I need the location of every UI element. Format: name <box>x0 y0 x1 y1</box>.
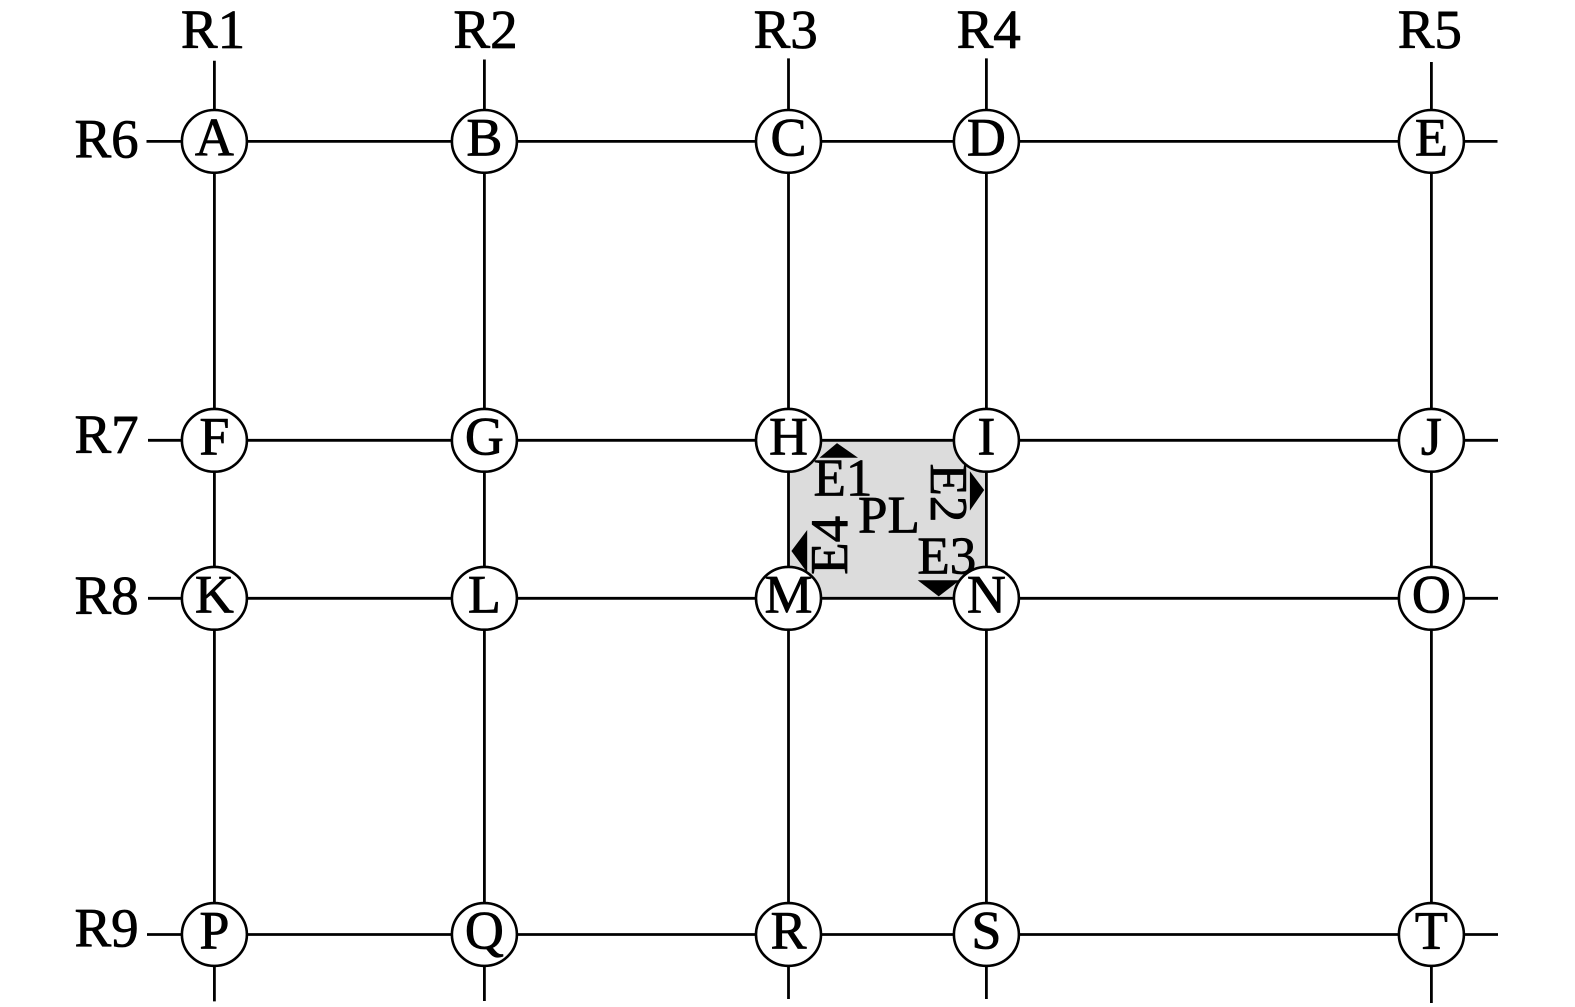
node L <box>452 564 517 629</box>
node H <box>756 406 821 471</box>
svg-text:K: K <box>195 564 234 624</box>
node C <box>756 107 821 172</box>
node S <box>954 901 1019 966</box>
svg-text:L: L <box>468 564 501 624</box>
svg-text:Q: Q <box>465 901 504 961</box>
svg-text:R6: R6 <box>75 109 139 170</box>
wire route R4 vertical line <box>985 58 988 999</box>
svg-text:H: H <box>769 406 808 466</box>
node A <box>182 107 247 172</box>
svg-text:E2: E2 <box>919 464 977 523</box>
svg-text:R5: R5 <box>1398 0 1462 60</box>
svg-text:O: O <box>1412 564 1451 624</box>
svg-text:F: F <box>199 406 229 466</box>
svg-text:R: R <box>770 901 806 961</box>
svg-text:R8: R8 <box>75 565 139 626</box>
svg-text:J: J <box>1421 406 1442 466</box>
node Q <box>452 901 517 966</box>
svg-text:E3: E3 <box>917 528 976 586</box>
wire route R5 vertical line <box>1430 62 1433 1003</box>
node O <box>1399 564 1464 629</box>
edge E4 arrow (left) <box>791 530 807 573</box>
node E <box>1399 107 1464 172</box>
node D <box>954 107 1019 172</box>
svg-text:P: P <box>199 901 229 961</box>
svg-text:G: G <box>465 406 504 466</box>
svg-text:R1: R1 <box>181 0 245 60</box>
svg-text:T: T <box>1415 901 1448 961</box>
svg-text:D: D <box>967 107 1006 167</box>
node N <box>954 564 1019 629</box>
node B <box>452 107 517 172</box>
node I <box>954 406 1019 471</box>
node M <box>756 564 821 629</box>
node K <box>182 564 247 629</box>
wire route R1 vertical line <box>213 61 216 1002</box>
svg-text:R2: R2 <box>453 0 517 60</box>
svg-text:B: B <box>466 107 502 167</box>
edge E1 arrow (up) <box>820 443 859 458</box>
svg-text:E: E <box>1415 107 1448 167</box>
node G <box>452 406 517 471</box>
svg-text:R9: R9 <box>75 898 139 959</box>
wire route R6 horizontal line <box>147 140 1498 143</box>
wire route R9 horizontal line <box>147 933 1498 936</box>
node J <box>1399 406 1464 471</box>
svg-text:R4: R4 <box>957 0 1021 60</box>
wire route R2 vertical line <box>483 60 486 1002</box>
edge E2 arrow (right) <box>970 471 984 510</box>
svg-text:R3: R3 <box>754 0 818 60</box>
svg-text:S: S <box>971 901 1001 961</box>
node R <box>756 901 821 966</box>
node F <box>182 406 247 471</box>
svg-text:C: C <box>770 107 806 167</box>
shaded region PL (cell H-I-N-M) <box>789 440 987 598</box>
edge E3 arrow (down) <box>918 580 960 596</box>
svg-text:E4: E4 <box>801 516 859 575</box>
node T <box>1399 901 1464 966</box>
svg-text:A: A <box>195 107 234 167</box>
wire route R7 horizontal line <box>148 439 1498 442</box>
svg-text:PL: PL <box>858 487 920 545</box>
wire route R8 horizontal line <box>148 597 1498 600</box>
node P <box>182 901 247 966</box>
svg-text:R7: R7 <box>75 404 139 465</box>
wire route R3 vertical line <box>787 58 790 999</box>
svg-text:I: I <box>977 406 995 466</box>
